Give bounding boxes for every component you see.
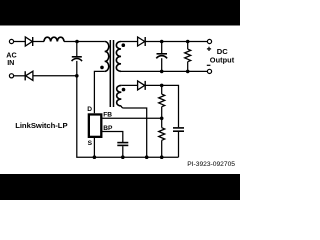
svg-text:LinkSwitch-LP: LinkSwitch-LP [15,121,67,130]
svg-text:FB: FB [103,111,112,118]
svg-text:BP: BP [103,125,113,132]
svg-text:S: S [88,140,93,147]
svg-text:Output: Output [210,55,235,64]
svg-text:D: D [87,106,92,113]
svg-text:PI-3923-092705: PI-3923-092705 [187,161,235,168]
svg-text:IN: IN [7,58,14,67]
